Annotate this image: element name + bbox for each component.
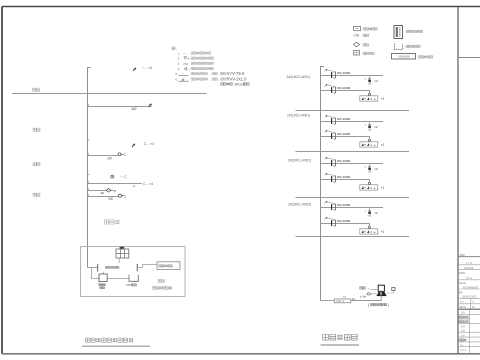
svg-text:1.: 1. — [178, 51, 181, 55]
svg-text:): ) — [388, 303, 389, 307]
notes block — [172, 47, 249, 86]
zone divider D3 — [296, 197, 410, 199]
svg-text:x x %: x x % — [466, 261, 473, 265]
reader RD G1b label — [337, 86, 350, 90]
TV wall monitor bank — [116, 247, 129, 258]
legend: main controller symbol — [394, 26, 403, 39]
svg-text:0 00 : 0: 0 00 : 0 — [336, 300, 345, 303]
legend: card reader label — [363, 28, 377, 31]
device box G4 qty label — [381, 230, 385, 234]
camera CAM1 (roof) — [133, 67, 137, 71]
svg-text:9 9: 9 9 — [461, 329, 465, 333]
svg-text::: : — [218, 77, 219, 81]
left diagram title — [86, 338, 134, 342]
svg-text:2#(2#D1,4#D2): 2#(2#D1,4#D2) — [288, 159, 311, 163]
wire G3 branch 1 — [321, 163, 384, 165]
sheet frame top — [2, 6, 480, 8]
zone divider D2 — [296, 151, 410, 153]
svg-text:×2: ×2 — [374, 125, 378, 129]
camera CAM5 — [111, 175, 114, 178]
svg-text:⌐· C: ⌐· C — [121, 175, 128, 179]
camera CAM7 dome end of B4 — [106, 189, 116, 194]
svg-text:RVV-2x1.0: RVV-2x1.0 — [227, 77, 248, 82]
title block row texts — [458, 253, 480, 354]
legend: door magnet symbol — [354, 42, 360, 47]
wire branch B4 — [88, 189, 107, 191]
svg-text:RD-100M: RD-100M — [337, 203, 350, 207]
PC monitor — [378, 285, 384, 291]
label DX under B2 — [108, 157, 113, 161]
mouse symbol — [367, 293, 377, 295]
svg-text:FACE: FACE — [459, 281, 466, 285]
wire host to monitor — [371, 289, 379, 291]
host label — [360, 287, 370, 291]
svg-text:9B 9L: 9B 9L — [460, 305, 467, 309]
svg-text:C→ ×4: C→ ×4 — [144, 142, 154, 146]
wire bus down to matrix — [92, 268, 100, 279]
svg-text:1F: 1F — [472, 305, 475, 309]
DVR right terminal — [136, 264, 138, 272]
CCTV riser bus — [88, 68, 91, 268]
camera CAM4 end of B2 — [118, 153, 127, 157]
camera CAM6 label end of B3 — [143, 182, 153, 186]
zone label L0 (top group) — [287, 75, 311, 79]
wire DVR to screen — [137, 265, 157, 268]
legend: power supply label — [406, 45, 420, 48]
label 1F near wire — [352, 297, 355, 301]
legend: card reader symbol — [354, 27, 361, 31]
wire matrix to UPS — [107, 278, 129, 280]
left title underline — [82, 345, 150, 347]
reader RD G4b — [325, 217, 336, 226]
DVR left terminal — [97, 264, 99, 272]
device box G1 qty label — [381, 97, 385, 101]
wire G4 branch 2 — [321, 224, 370, 227]
right diagram title — [323, 335, 357, 341]
reader RD G2a — [325, 115, 336, 124]
reader RD G2b label — [337, 132, 350, 136]
svg-text:CM: CM — [368, 130, 372, 132]
title block column line — [457, 7, 459, 354]
svg-text:A#(1#D2,4#D1): A#(1#D2,4#D1) — [287, 75, 311, 79]
svg-text:≥ 1#: ≥ 1# — [360, 295, 366, 299]
svg-text:9 9: 9 9 — [461, 324, 465, 328]
svg-text:UPS: UPS — [126, 283, 132, 287]
right title underline — [321, 344, 359, 346]
svg-text:C→ ×4: C→ ×4 — [143, 182, 153, 186]
device box G3 — [360, 182, 378, 190]
svg-text:RD-100M: RD-100M — [337, 71, 350, 75]
reader RD G3a label — [337, 159, 350, 163]
wire branch B3 — [88, 182, 142, 184]
wire branch B1 — [88, 105, 152, 107]
matrix host box — [99, 272, 107, 282]
svg-text:2#: 2# — [101, 191, 105, 195]
reader RD G3a — [325, 157, 336, 166]
svg-text:1#(1#D1,4#D1): 1#(1#D1,4#D1) — [287, 114, 310, 118]
wire branch B2 — [88, 154, 118, 156]
svg-text:×2: ×2 — [374, 167, 378, 171]
wire G4 branch 1 — [321, 207, 384, 209]
lock G1 qty label — [374, 79, 378, 83]
wire bus to switch — [321, 300, 335, 302]
floor label 1F — [33, 193, 40, 196]
sheet frame left — [1, 7, 3, 354]
svg-text:×1: ×1 — [381, 143, 385, 147]
wire switch to PC — [351, 296, 381, 301]
wire G3 branch 2 — [321, 180, 370, 183]
svg-text:SYV-75-5: SYV-75-5 — [227, 71, 246, 76]
duty room label — [153, 279, 173, 289]
wire G1 branch 2 — [321, 91, 370, 94]
svg-text:×4: ×4 — [374, 79, 378, 83]
svg-text:d.: d. — [133, 184, 136, 188]
PC keyboard base — [377, 292, 387, 296]
label W2 under B1 — [132, 107, 137, 111]
device box G2 — [360, 139, 378, 147]
wire G2 branch 1 — [321, 121, 384, 123]
svg-text:d: d — [114, 189, 116, 193]
camera CAM5 label — [121, 175, 128, 179]
device box G1 — [360, 93, 378, 101]
svg-text:6.: 6. — [175, 77, 178, 81]
roof label — [33, 88, 40, 91]
svg-text:(%): (%) — [184, 62, 189, 66]
wire TV wall stem — [118, 258, 120, 263]
wire G1 branch 1 — [321, 75, 384, 77]
label 2# under B4 — [101, 191, 105, 195]
device box G3 qty label — [381, 186, 385, 190]
lock symbol G4 — [365, 208, 372, 218]
legend: power supply symbol — [395, 44, 403, 50]
reader RD G2b — [325, 130, 336, 139]
legend: network switch label — [419, 56, 433, 59]
UPS symbol — [129, 275, 138, 282]
zone label L2 — [288, 159, 311, 163]
reader RD G4a — [325, 201, 336, 210]
floor label 2F — [33, 163, 40, 166]
reader RD G1b — [325, 84, 336, 93]
svg-text:3#(3#D1,4#D3): 3#(3#D1,4#D3) — [288, 203, 311, 207]
printer box — [387, 288, 396, 293]
svg-text:9 9: 9 9 — [461, 333, 465, 337]
svg-text:⌐→ ×4: ⌐→ ×4 — [143, 66, 153, 70]
lock symbol G3 — [365, 164, 372, 174]
svg-text:4 -: 4 - — [461, 343, 464, 347]
camera CAM3 — [132, 143, 136, 147]
svg-text:→: → — [188, 67, 191, 71]
svg-text:00000000: 00000000 — [399, 56, 411, 59]
svg-text:×1: ×1 — [381, 186, 385, 190]
lock G4 qty label — [374, 211, 378, 215]
svg-text:9 9: 9 9 — [461, 311, 465, 315]
device box G2 qty label — [381, 143, 385, 147]
lock G3 qty label — [374, 167, 378, 171]
svg-text:RD-100M: RD-100M — [337, 219, 350, 223]
svg-text:⌐→: ⌐→ — [184, 52, 189, 56]
reader RD G2a label — [337, 117, 350, 121]
legend: network switch symbol — [392, 54, 416, 60]
bus hook tick 2 — [88, 174, 90, 176]
lock G2 qty label — [374, 125, 378, 129]
svg-text:PLAN B: PLAN B — [464, 266, 473, 270]
svg-text:×2: ×2 — [374, 211, 378, 215]
reader RD G3b — [325, 173, 336, 182]
wire bus into DVR — [88, 267, 98, 269]
zone label L1 — [287, 114, 310, 118]
svg-text:2/16(7)-2013: 2/16(7)-2013 — [462, 295, 477, 299]
svg-text:CM: CM — [368, 172, 372, 174]
legend: exit button label — [363, 52, 374, 55]
camera CAM3 label — [144, 142, 154, 146]
label under B3 — [133, 184, 136, 188]
floor label 3F — [33, 128, 40, 131]
legend: electric lock label — [363, 34, 369, 37]
svg-text:BF.: BF. — [459, 290, 463, 294]
zone label L3 — [288, 203, 311, 207]
matrix host label — [99, 284, 106, 289]
access control center label — [368, 303, 389, 307]
camera CAM8 end of B5 — [119, 194, 128, 198]
svg-text:RD-100M: RD-100M — [337, 86, 350, 90]
reader RD G1a label — [337, 71, 350, 75]
bus hook tick 1 — [88, 140, 90, 142]
legend: main controller label — [406, 30, 423, 33]
reader RD G4a label — [337, 203, 350, 207]
control room boundary — [81, 247, 186, 297]
mouse label — [360, 295, 366, 299]
svg-text:××: ×× — [343, 295, 347, 299]
svg-text:2.: 2. — [178, 57, 181, 61]
reader RD G4b label — [337, 219, 350, 223]
reader RD G3b label — [337, 175, 350, 179]
svg-text:JDG20: JDG20 — [234, 82, 245, 86]
svg-text:DWN.: DWN. — [459, 271, 466, 275]
svg-text:3.: 3. — [178, 62, 181, 66]
sheet frame bottom — [2, 353, 480, 355]
svg-text:CM: CM — [368, 84, 372, 86]
camera CAM1 label — [143, 66, 153, 70]
wire branch B5 — [88, 195, 119, 197]
building label — [104, 220, 119, 224]
svg-text:ROOF/BASE: ROOF/BASE — [463, 285, 478, 289]
svg-text:RD-100M: RD-100M — [337, 132, 350, 136]
access riser bus — [321, 67, 325, 301]
big screen box — [157, 262, 180, 270]
svg-text::: : — [218, 72, 219, 76]
zone divider D4 — [296, 236, 410, 238]
svg-text:2 1 0: 2 1 0 — [466, 276, 472, 280]
legend: door magnet label — [363, 44, 369, 47]
svg-text:CM.: CM. — [354, 34, 360, 38]
svg-text:W2: W2 — [132, 107, 137, 111]
svg-text:RD-100M: RD-100M — [337, 159, 350, 163]
svg-text:4 4 4: 4 4 4 — [460, 348, 466, 352]
svg-text::: : — [176, 47, 177, 51]
camera CAM2 end of B1 — [148, 103, 152, 107]
title block top divider — [458, 57, 480, 59]
network switch SW — [334, 299, 351, 303]
svg-text:RD-100M: RD-100M — [337, 117, 350, 121]
svg-text:CM: CM — [368, 216, 372, 218]
svg-text:5.: 5. — [175, 72, 178, 76]
UPS label — [126, 283, 137, 287]
device box G4 — [360, 226, 378, 234]
svg-text:4.: 4. — [178, 67, 181, 71]
svg-text:×1: ×1 — [381, 230, 385, 234]
reader RD G1a — [325, 69, 336, 78]
wire G2 branch 2 — [321, 137, 370, 140]
DVR label — [105, 266, 119, 268]
svg-text:×1: ×1 — [381, 97, 385, 101]
roof line — [12, 93, 207, 95]
lock symbol G1 — [365, 76, 372, 86]
switch label — [343, 295, 347, 299]
legend: exit button symbol — [354, 51, 360, 56]
legend: electric lock symbol — [354, 34, 360, 38]
svg-text:RD-100M: RD-100M — [337, 175, 350, 179]
label DX under B5 — [109, 197, 114, 201]
zone divider D1 — [296, 110, 410, 112]
lock symbol G2 — [365, 122, 372, 132]
svg-text:=: = — [368, 287, 370, 291]
